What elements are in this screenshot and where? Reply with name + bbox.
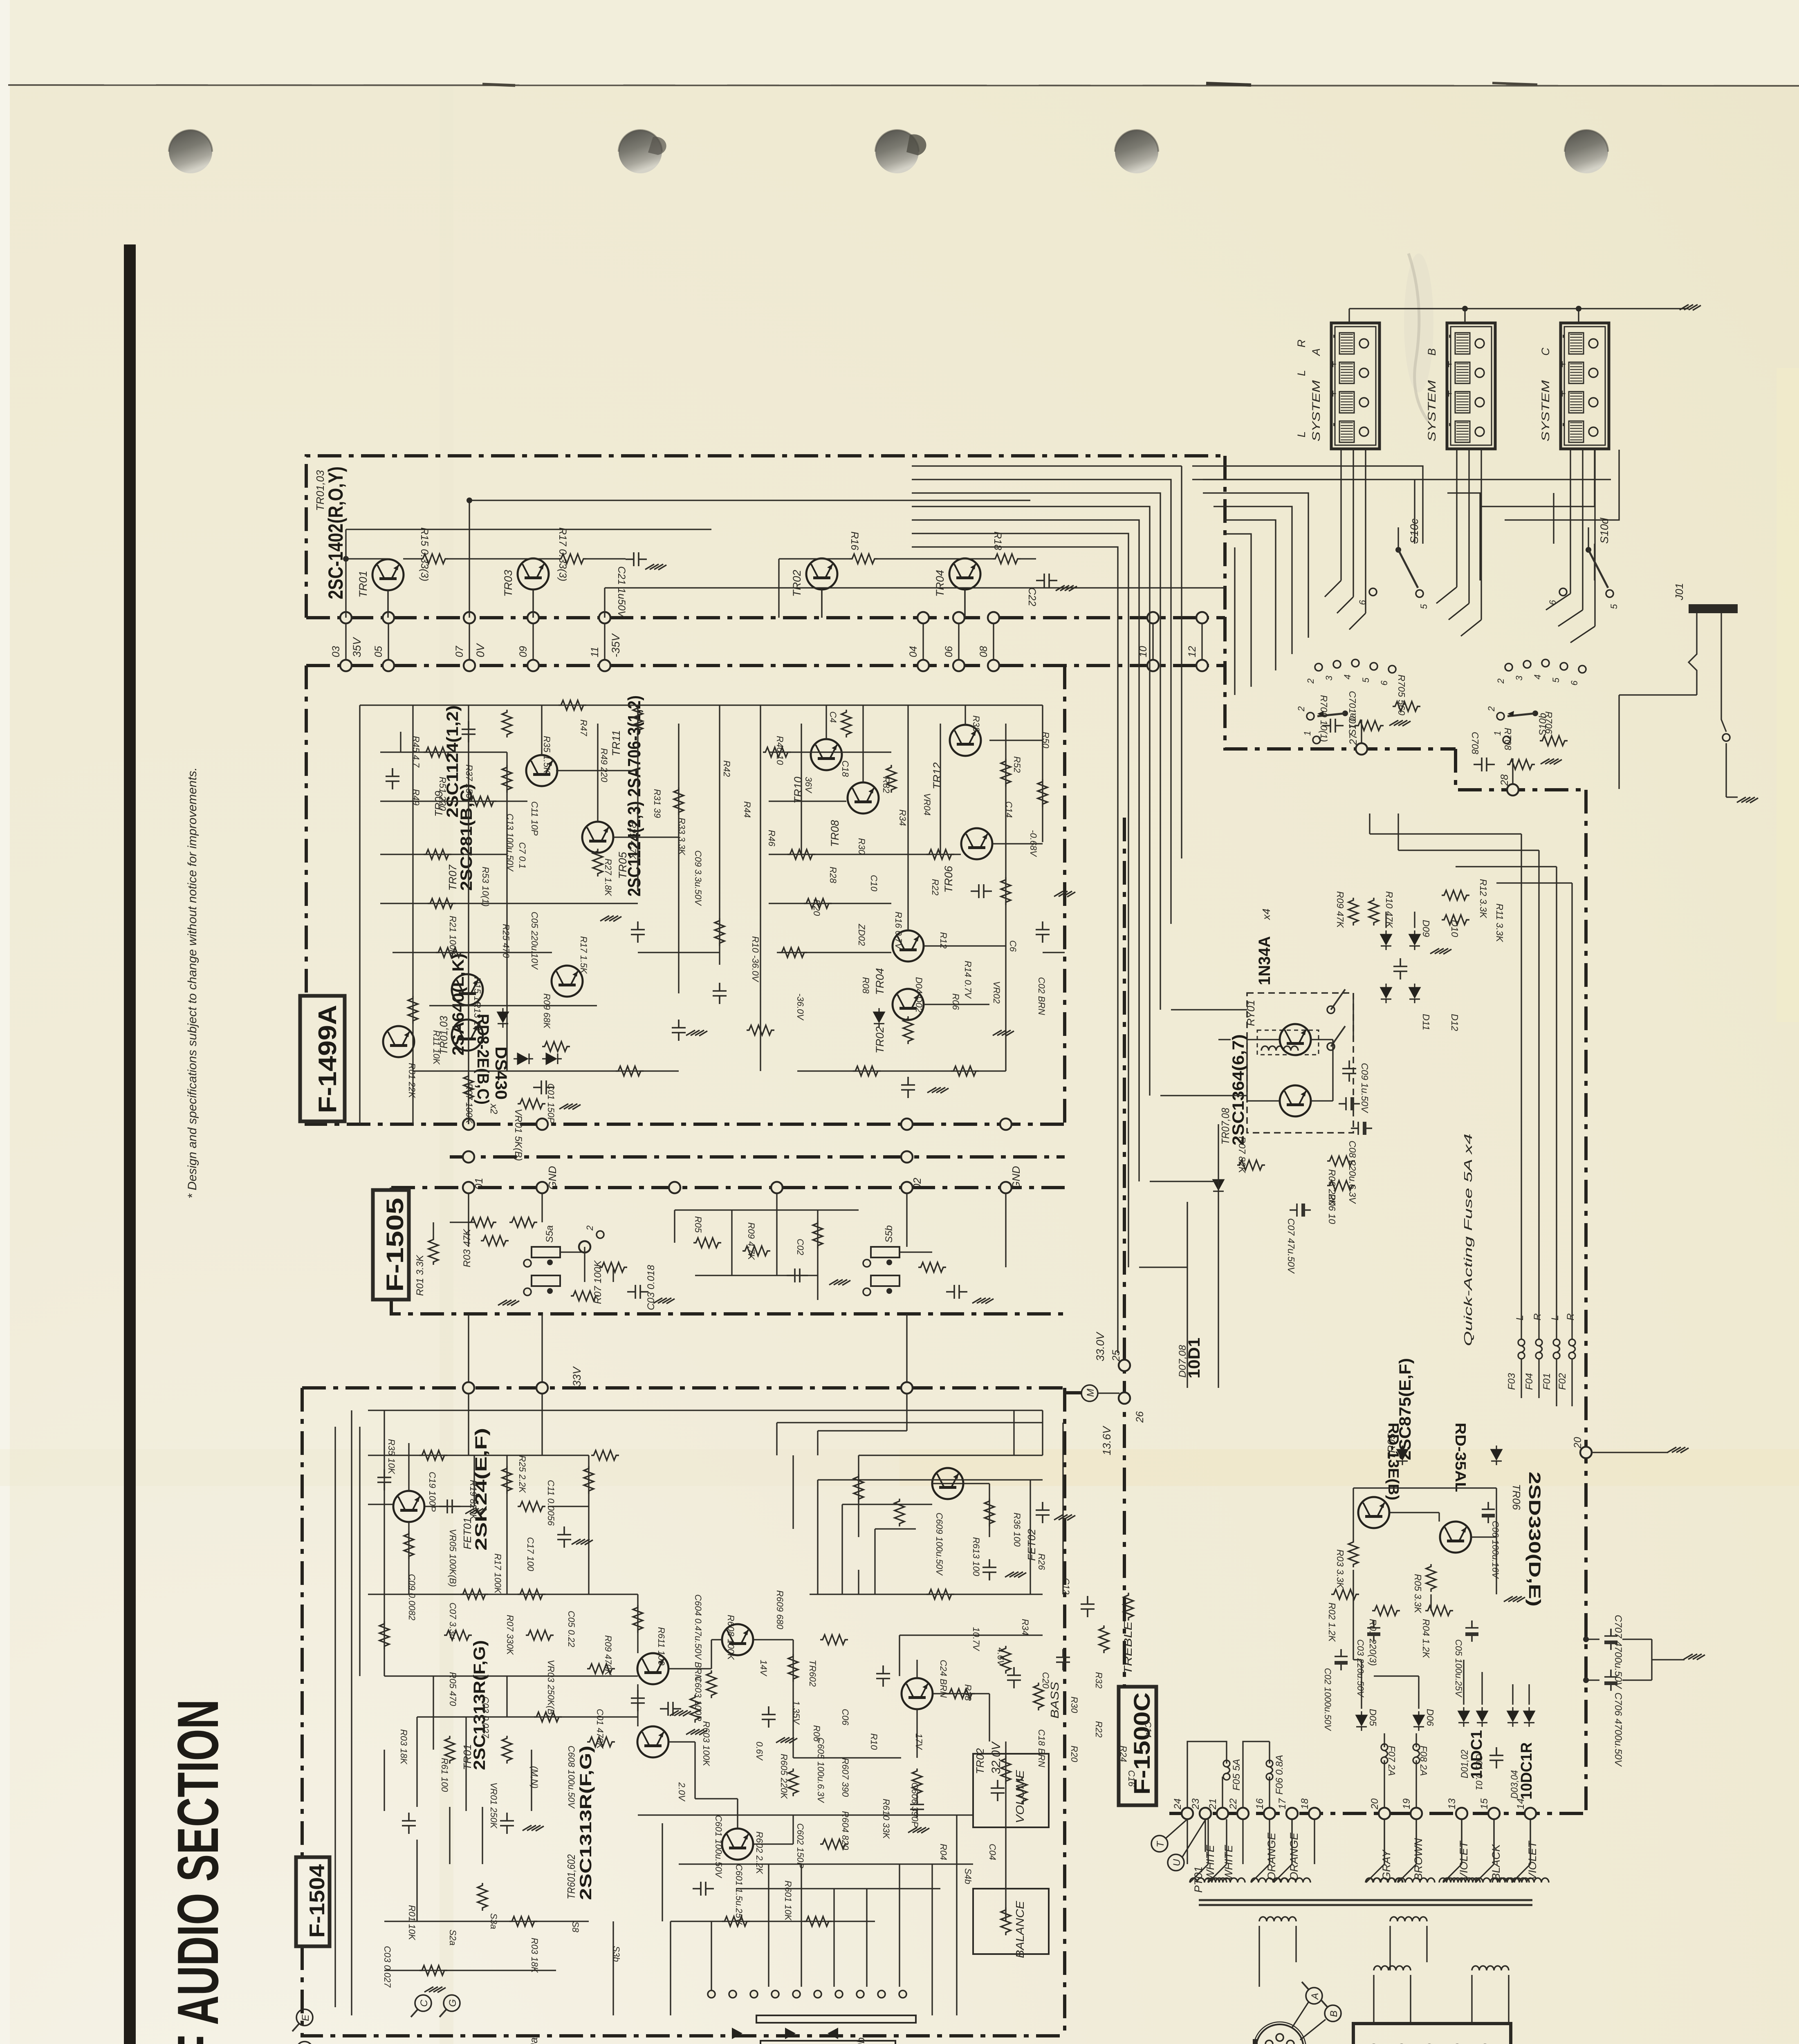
svg-text:8. SCHEMATIC DIAGRAM OF AUDIO: 8. SCHEMATIC DIAGRAM OF AUDIO SECTION bbox=[166, 1699, 231, 2044]
ground bbox=[686, 1729, 707, 1735]
node A bbox=[296, 2042, 313, 2044]
speaker wire bundle bbox=[912, 465, 1182, 466]
node U bbox=[1168, 1854, 1184, 1871]
svg-text:TR02: TR02 bbox=[974, 1748, 986, 1774]
R08 22K bbox=[1327, 1156, 1355, 1166]
svg-text:RY01: RY01 bbox=[1245, 1000, 1257, 1026]
paper top edge bbox=[8, 85, 1799, 86]
svg-text:C24 BRN: C24 BRN bbox=[938, 1660, 949, 1698]
resistor bbox=[1001, 759, 1011, 787]
ground bbox=[653, 1298, 675, 1304]
resistor bbox=[534, 1712, 562, 1722]
resistor bbox=[715, 918, 725, 946]
svg-text:B: B bbox=[1328, 2010, 1339, 2017]
resistor bbox=[424, 849, 451, 859]
svg-text:-: - bbox=[1326, 423, 1340, 427]
svg-text:1: 1 bbox=[1492, 731, 1503, 736]
resistor R03 47K bbox=[469, 1217, 496, 1227]
svg-text:2SC1364(6,7): 2SC1364(6,7) bbox=[1229, 1034, 1247, 1145]
big cap C707 4700u50V bbox=[1604, 1629, 1617, 1650]
svg-text:5: 5 bbox=[1551, 677, 1561, 683]
svg-text:S10d: S10d bbox=[1598, 518, 1611, 544]
bundle extension bbox=[1192, 466, 1423, 544]
ground bbox=[1054, 1515, 1075, 1520]
wire TR03 base bbox=[532, 589, 534, 618]
svg-text:x4: x4 bbox=[1260, 909, 1272, 921]
diode ZD02 bbox=[874, 1008, 884, 1028]
terminal 27 bbox=[1356, 743, 1367, 755]
svg-text:5: 5 bbox=[1609, 604, 1619, 609]
svg-text:T: T bbox=[1155, 1840, 1166, 1847]
transistor TR602 bbox=[722, 1624, 753, 1655]
terminal 10 bbox=[1147, 612, 1159, 623]
punch hole 4 bbox=[1115, 130, 1158, 173]
svg-text:R04: R04 bbox=[938, 1844, 949, 1860]
svg-text:R06 10: R06 10 bbox=[1327, 1194, 1337, 1224]
speaker feed wire bbox=[1468, 449, 1469, 603]
svg-text:C608 100u.50V: C608 100u.50V bbox=[566, 1746, 576, 1809]
resistor bbox=[1038, 779, 1048, 807]
svg-text:13.6V: 13.6V bbox=[1101, 1425, 1113, 1455]
svg-text:10.7V: 10.7V bbox=[971, 1627, 981, 1652]
svg-text:15: 15 bbox=[1479, 1798, 1490, 1809]
svg-text:C11 0.0056: C11 0.0056 bbox=[546, 1480, 556, 1526]
svg-text:* Design and specifications su: * Design and specifications subject to c… bbox=[186, 767, 199, 1199]
ground bbox=[424, 1987, 446, 1992]
svg-text:R45 4.7: R45 4.7 bbox=[411, 736, 421, 768]
transistor TR02 bbox=[893, 989, 924, 1020]
extra wires F-1504 bbox=[334, 1427, 336, 2007]
terminal 01 bbox=[463, 1118, 474, 1130]
svg-text:24: 24 bbox=[1172, 1798, 1183, 1810]
svg-text:TR03: TR03 bbox=[502, 570, 514, 597]
rect wires bbox=[1361, 1660, 1362, 1709]
C01 0.01 bbox=[1489, 1747, 1503, 1768]
resistor bbox=[804, 899, 832, 908]
svg-text:F07 2A: F07 2A bbox=[1386, 1746, 1397, 1776]
svg-text:R30: R30 bbox=[1069, 1697, 1079, 1713]
transistor TR07ps bbox=[1440, 1522, 1471, 1553]
svg-text:-: - bbox=[1556, 334, 1569, 338]
winding VIOLET bbox=[1512, 1878, 1549, 1883]
svg-text:R705 560: R705 560 bbox=[1396, 675, 1407, 715]
svg-text:F-1505: F-1505 bbox=[382, 1198, 408, 1292]
svg-text:U: U bbox=[1171, 1859, 1182, 1866]
resistor bbox=[502, 1466, 512, 1494]
switch S10c bbox=[1395, 547, 1401, 553]
F-1505 box outline bbox=[391, 1186, 1065, 1189]
svg-text:R47: R47 bbox=[579, 719, 589, 736]
fuse F06 0.8A bbox=[1266, 1760, 1273, 1780]
svg-text:R15 0.33(3): R15 0.33(3) bbox=[419, 527, 430, 581]
svg-text:TR11: TR11 bbox=[610, 730, 622, 756]
svg-text:C08 220u.6.3V: C08 220u.6.3V bbox=[1347, 1141, 1358, 1204]
resistor bbox=[460, 1589, 488, 1599]
svg-text:23: 23 bbox=[1190, 1798, 1201, 1810]
svg-text:R07 100K: R07 100K bbox=[592, 1260, 603, 1304]
svg-text:R16 0.7V: R16 0.7V bbox=[893, 912, 904, 950]
svg-text:R09 470K: R09 470K bbox=[603, 1635, 613, 1676]
svg-text:L: L bbox=[1295, 370, 1308, 376]
svg-text:+: + bbox=[1326, 390, 1340, 397]
resistor bbox=[445, 1736, 455, 1764]
svg-text:B: B bbox=[1426, 348, 1438, 356]
capacitor C03 0.018 bbox=[627, 1285, 648, 1299]
C07 47u50V bbox=[1290, 1204, 1311, 1217]
svg-text:R25 2.2K: R25 2.2K bbox=[517, 1455, 527, 1493]
svg-text:6: 6 bbox=[1548, 600, 1558, 605]
resistor R16 bbox=[850, 554, 877, 564]
svg-text:2SC281(B,C): 2SC281(B,C) bbox=[458, 784, 476, 891]
svg-text:D12: D12 bbox=[1449, 1014, 1460, 1031]
svg-text:09: 09 bbox=[518, 646, 529, 657]
ground bbox=[523, 1825, 544, 1831]
svg-text:R19 820K: R19 820K bbox=[468, 1480, 478, 1520]
svg-text:C701 0.1: C701 0.1 bbox=[1347, 691, 1358, 729]
svg-text:L: L bbox=[1295, 431, 1308, 437]
F-1500C right edge bbox=[1584, 790, 1588, 1813]
resistor bbox=[707, 1670, 716, 1698]
extra wires F-1499A bbox=[400, 732, 401, 752]
capacitor bbox=[1036, 921, 1050, 943]
svg-text:R06: R06 bbox=[812, 1725, 822, 1742]
svg-text:D04 D02: D04 D02 bbox=[914, 977, 924, 1013]
F-1505 label box bbox=[373, 1190, 409, 1300]
resistor bbox=[853, 1066, 881, 1076]
svg-text:C604 0.47u.50V BRN: C604 0.47u.50V BRN bbox=[693, 1594, 703, 1681]
winding BROWN bbox=[1398, 1878, 1435, 1883]
ground bbox=[776, 1737, 797, 1743]
svg-text:TR12: TR12 bbox=[931, 762, 943, 789]
capacitor C22 bbox=[1036, 574, 1057, 587]
F-1500C bottom bus bbox=[1169, 1812, 1586, 1815]
transistor Q bbox=[452, 1020, 483, 1051]
ground bbox=[572, 1539, 593, 1545]
svg-text:C05 100u.25V: C05 100u.25V bbox=[1454, 1639, 1464, 1698]
wire bus 33V bbox=[541, 1314, 543, 1388]
svg-text:SYSTEM: SYSTEM bbox=[1310, 380, 1322, 442]
bridge 10DC1R bbox=[1507, 1707, 1518, 1727]
resistor bbox=[926, 849, 954, 859]
winding VIOLET bbox=[1443, 1878, 1480, 1883]
svg-text:2: 2 bbox=[1306, 679, 1316, 684]
svg-text:C603 100P: C603 100P bbox=[693, 1676, 703, 1721]
svg-text:R07 82K: R07 82K bbox=[1237, 1136, 1247, 1174]
svg-text:2: 2 bbox=[1486, 706, 1496, 712]
transistor TR04 bbox=[949, 558, 980, 589]
svg-text:R13 10: R13 10 bbox=[472, 1002, 482, 1031]
svg-text:J01: J01 bbox=[1673, 583, 1685, 601]
svg-text:R37 150: R37 150 bbox=[464, 764, 474, 799]
svg-text:R29 4.7K: R29 4.7K bbox=[628, 822, 638, 860]
terminal 11 bbox=[599, 612, 610, 623]
svg-text:R27 1.8K: R27 1.8K bbox=[603, 858, 613, 896]
resistor bbox=[502, 1736, 512, 1764]
resistor bbox=[1001, 877, 1011, 905]
capacitor bbox=[1036, 1502, 1050, 1523]
svg-text:C707 4700u.50V: C707 4700u.50V bbox=[1613, 1615, 1624, 1689]
svg-text:R608 100K: R608 100K bbox=[726, 1615, 736, 1660]
svg-text:R05 3.3K: R05 3.3K bbox=[1413, 1574, 1423, 1614]
svg-text:x2: x2 bbox=[488, 1103, 499, 1114]
svg-text:17V: 17V bbox=[914, 1733, 924, 1750]
svg-text:F-1504: F-1504 bbox=[305, 1864, 329, 1938]
relay RY01 dashed box bbox=[1247, 993, 1353, 1133]
resistor R17 0.33(3) bbox=[559, 554, 586, 564]
resistor R02 4.7K bbox=[481, 1236, 509, 1246]
resistor bbox=[747, 1025, 774, 1035]
svg-text:TR04: TR04 bbox=[874, 968, 886, 995]
resistor bbox=[722, 1916, 750, 1926]
resistor bbox=[584, 1466, 594, 1494]
transistor TR01b bbox=[637, 1726, 668, 1757]
protection diodes bbox=[1381, 930, 1391, 950]
svg-text:R21 100K: R21 100K bbox=[448, 916, 458, 956]
resistor bbox=[779, 948, 807, 957]
resistor bbox=[518, 1502, 545, 1511]
DIN socket J02 bbox=[1256, 2024, 1303, 2044]
svg-text:C03 0.018: C03 0.018 bbox=[646, 1265, 657, 1310]
svg-text:C06: C06 bbox=[840, 1709, 850, 1726]
F-1500C label box bbox=[1119, 1687, 1156, 1805]
capacitor bbox=[693, 1882, 714, 1896]
svg-text:C606 390P: C606 390P bbox=[910, 1782, 920, 1827]
C02 1000u50V bbox=[1335, 1649, 1348, 1670]
svg-text:R03 18K: R03 18K bbox=[399, 1729, 409, 1765]
svg-text:L: L bbox=[1514, 1315, 1525, 1320]
capacitor bbox=[982, 1559, 996, 1580]
speaker feed wire bbox=[1340, 449, 1341, 580]
svg-text:R07 100K: R07 100K bbox=[464, 1083, 474, 1124]
svg-text:36V: 36V bbox=[803, 777, 814, 793]
svg-text:4: 4 bbox=[1532, 675, 1543, 679]
svg-text:6: 6 bbox=[1357, 600, 1368, 605]
F-1499A GND bus bbox=[450, 1155, 1065, 1159]
ground bbox=[465, 1508, 487, 1514]
svg-text:VIOLET: VIOLET bbox=[1458, 1840, 1470, 1880]
diode D05 bbox=[1356, 1711, 1367, 1731]
svg-text:S9a: S9a bbox=[527, 2037, 540, 2044]
svg-text:BLACK: BLACK bbox=[1490, 1844, 1502, 1880]
zener ZD02ps bbox=[1397, 1446, 1408, 1465]
resistor bbox=[903, 1016, 913, 1044]
svg-text:R17 0.33(3): R17 0.33(3) bbox=[557, 527, 568, 581]
svg-text:R34: R34 bbox=[1020, 1619, 1030, 1635]
resistor bbox=[1001, 1756, 1011, 1784]
svg-text:S3b: S3b bbox=[611, 1946, 621, 1962]
resistor bbox=[542, 1042, 570, 1051]
svg-text:R613 100: R613 100 bbox=[971, 1537, 981, 1576]
terminal 08 bbox=[988, 612, 999, 623]
svg-text:TR06: TR06 bbox=[942, 865, 955, 893]
svg-text:R: R bbox=[1532, 1313, 1543, 1320]
capacitor bbox=[660, 1702, 681, 1716]
C06 100u16V bbox=[1482, 1502, 1495, 1523]
R02 1.2K bbox=[1331, 1589, 1359, 1599]
svg-text:R604 820: R604 820 bbox=[840, 1811, 850, 1850]
svg-text:BALANCE: BALANCE bbox=[1014, 1901, 1026, 1958]
svg-text:R04 1.2K: R04 1.2K bbox=[1421, 1619, 1431, 1659]
resistor bbox=[404, 1531, 414, 1559]
svg-text:R01 3.3K: R01 3.3K bbox=[415, 1255, 426, 1296]
diode D07 bbox=[1213, 1176, 1224, 1195]
svg-text:C04: C04 bbox=[987, 1844, 998, 1860]
wire R rail bbox=[779, 558, 850, 559]
svg-text:35V: 35V bbox=[351, 637, 363, 657]
R07 82K bbox=[1237, 1160, 1265, 1170]
resistor bbox=[788, 1768, 798, 1796]
svg-text:C06 100u.16V: C06 100u.16V bbox=[1490, 1521, 1501, 1579]
svg-text:C22: C22 bbox=[1026, 587, 1038, 606]
resistor bbox=[526, 1630, 554, 1640]
resistor bbox=[587, 1737, 615, 1747]
svg-text:C18: C18 bbox=[840, 760, 850, 777]
svg-text:SYSTEM: SYSTEM bbox=[1426, 380, 1438, 442]
resistor bbox=[951, 1066, 979, 1076]
capacitor bbox=[500, 1813, 514, 1834]
svg-text:G: G bbox=[447, 1999, 458, 2007]
svg-text:Quick-Acting Fuse 5A x4: Quick-Acting Fuse 5A x4 bbox=[1462, 1134, 1474, 1346]
capacitor bbox=[910, 1796, 924, 1818]
BALANCE pot box bbox=[973, 1889, 1049, 1954]
svg-text:R06: R06 bbox=[951, 993, 961, 1010]
C708 R708 network bbox=[1474, 758, 1495, 771]
resistor R63 47K bbox=[509, 1217, 537, 1227]
svg-text:6: 6 bbox=[1569, 680, 1579, 686]
resistor bbox=[926, 1589, 954, 1599]
speaker feed wire bbox=[1456, 449, 1457, 587]
svg-text:6: 6 bbox=[1379, 680, 1389, 686]
svg-text:-: - bbox=[1326, 334, 1340, 338]
resistor R15 0.33(3) bbox=[420, 554, 448, 564]
capacitor bbox=[876, 1665, 890, 1687]
svg-text:D06: D06 bbox=[1425, 1709, 1436, 1726]
svg-text:E: E bbox=[300, 2014, 311, 2021]
svg-text:R02 1.2K: R02 1.2K bbox=[1327, 1602, 1337, 1643]
svg-text:R709 10(1): R709 10(1) bbox=[1319, 695, 1329, 742]
svg-text:C609 100u.50V: C609 100u.50V bbox=[934, 1513, 944, 1576]
svg-text:R32: R32 bbox=[881, 777, 891, 793]
C03 220u50V bbox=[1367, 1620, 1380, 1642]
resistor R05 820K bbox=[571, 1291, 599, 1301]
svg-text:-36.0V: -36.0V bbox=[795, 993, 805, 1021]
svg-text:C4: C4 bbox=[828, 711, 838, 723]
terminal bbox=[771, 1182, 783, 1193]
winding ORANGE bbox=[1251, 1878, 1288, 1883]
relay contacts bbox=[1327, 1006, 1335, 1013]
svg-text:R603 100K: R603 100K bbox=[701, 1721, 711, 1766]
resistor bbox=[763, 747, 791, 757]
transistor Q bbox=[582, 822, 613, 853]
svg-text:C: C bbox=[1539, 347, 1552, 356]
svg-text:0V: 0V bbox=[474, 643, 487, 657]
svg-text:0.6V: 0.6V bbox=[754, 1741, 765, 1761]
resistor bbox=[633, 1605, 643, 1633]
svg-text:05: 05 bbox=[373, 646, 384, 657]
terminal GND bbox=[1000, 1118, 1012, 1130]
F-1499A label box bbox=[300, 996, 345, 1121]
resistor bbox=[820, 1839, 848, 1849]
svg-text:33V: 33V bbox=[571, 1366, 583, 1387]
node T bbox=[1151, 1836, 1168, 1852]
svg-text:R44: R44 bbox=[742, 801, 752, 818]
punch hole 5 bbox=[1565, 130, 1608, 173]
svg-text:R61 100: R61 100 bbox=[440, 1758, 450, 1792]
resistor R07 100K bbox=[599, 1262, 627, 1272]
svg-text:C17 100: C17 100 bbox=[525, 1537, 536, 1571]
svg-text:2: 2 bbox=[585, 1226, 595, 1231]
svg-text:R11 10K: R11 10K bbox=[431, 1030, 442, 1065]
terminal 07 bbox=[464, 612, 475, 623]
svg-text:19: 19 bbox=[1401, 1798, 1412, 1809]
transistor TR601 bbox=[722, 1829, 753, 1860]
svg-text:VR03 250K(B): VR03 250K(B) bbox=[546, 1660, 556, 1718]
svg-text:TR06: TR06 bbox=[1510, 1484, 1523, 1510]
speaker terminals SYSTEM C bbox=[1561, 323, 1609, 449]
svg-text:R31 39: R31 39 bbox=[652, 789, 662, 818]
ground bbox=[993, 1030, 1014, 1036]
svg-text:R17 100K: R17 100K bbox=[493, 1553, 503, 1594]
svg-text:C6: C6 bbox=[1008, 940, 1018, 952]
resistor bbox=[947, 1689, 975, 1699]
svg-text:5: 5 bbox=[1361, 677, 1371, 683]
fuse F04 bbox=[1536, 1339, 1542, 1359]
resistor bbox=[788, 1654, 798, 1682]
switch S5b bbox=[871, 1247, 899, 1257]
svg-text:RD-35AL: RD-35AL bbox=[1452, 1423, 1469, 1492]
svg-text:R: R bbox=[1295, 340, 1308, 348]
svg-text:VR05 100K(B): VR05 100K(B) bbox=[448, 1529, 458, 1587]
svg-text:C7 0.1: C7 0.1 bbox=[517, 842, 527, 869]
box A bottom bus bbox=[306, 616, 1225, 619]
fuse F01 bbox=[1553, 1339, 1560, 1359]
resistor bbox=[895, 1499, 904, 1526]
resistor bbox=[593, 849, 603, 876]
resistor bbox=[587, 1664, 615, 1674]
svg-text:R40 10: R40 10 bbox=[775, 736, 785, 765]
terminal 20 gnd bbox=[1580, 1447, 1592, 1458]
svg-text:TR01: TR01 bbox=[357, 571, 369, 598]
resistor bbox=[408, 996, 418, 1024]
svg-text:-35V: -35V bbox=[610, 633, 622, 657]
svg-text:SYSTEM: SYSTEM bbox=[1539, 380, 1552, 442]
transistor Q bbox=[526, 755, 557, 786]
node M bbox=[1081, 1385, 1098, 1401]
F-1505 mid wires bbox=[675, 1209, 859, 1210]
svg-text:R09 4.7K: R09 4.7K bbox=[746, 1222, 756, 1260]
svg-text:TR07: TR07 bbox=[446, 864, 459, 891]
power amp output box F-1499A outline (2SC-1402 strip) bbox=[306, 456, 1225, 618]
transistor TR08 bbox=[848, 782, 879, 814]
svg-text:R08: R08 bbox=[861, 977, 871, 994]
zener ZD01ps bbox=[1491, 1446, 1502, 1465]
wire collector rail L bbox=[346, 558, 388, 559]
svg-text:S4b: S4b bbox=[963, 1868, 973, 1884]
C05 100u25V bbox=[1465, 1620, 1478, 1642]
capacitor C04 bbox=[946, 1285, 967, 1299]
svg-text:R30: R30 bbox=[857, 838, 867, 855]
bridge 10DC1 bbox=[1458, 1707, 1469, 1727]
svg-text:D05: D05 bbox=[1368, 1709, 1378, 1726]
svg-text:R03 47K: R03 47K bbox=[462, 1229, 473, 1267]
resistor bbox=[674, 787, 684, 815]
svg-text:+: + bbox=[1556, 361, 1569, 368]
resistor bbox=[419, 1966, 447, 1975]
svg-text:C05 0.22: C05 0.22 bbox=[566, 1611, 576, 1647]
svg-text:R05: R05 bbox=[693, 1216, 703, 1233]
svg-text:C01 150P: C01 150P bbox=[546, 1083, 556, 1123]
svg-text:C602 150P: C602 150P bbox=[795, 1823, 805, 1868]
